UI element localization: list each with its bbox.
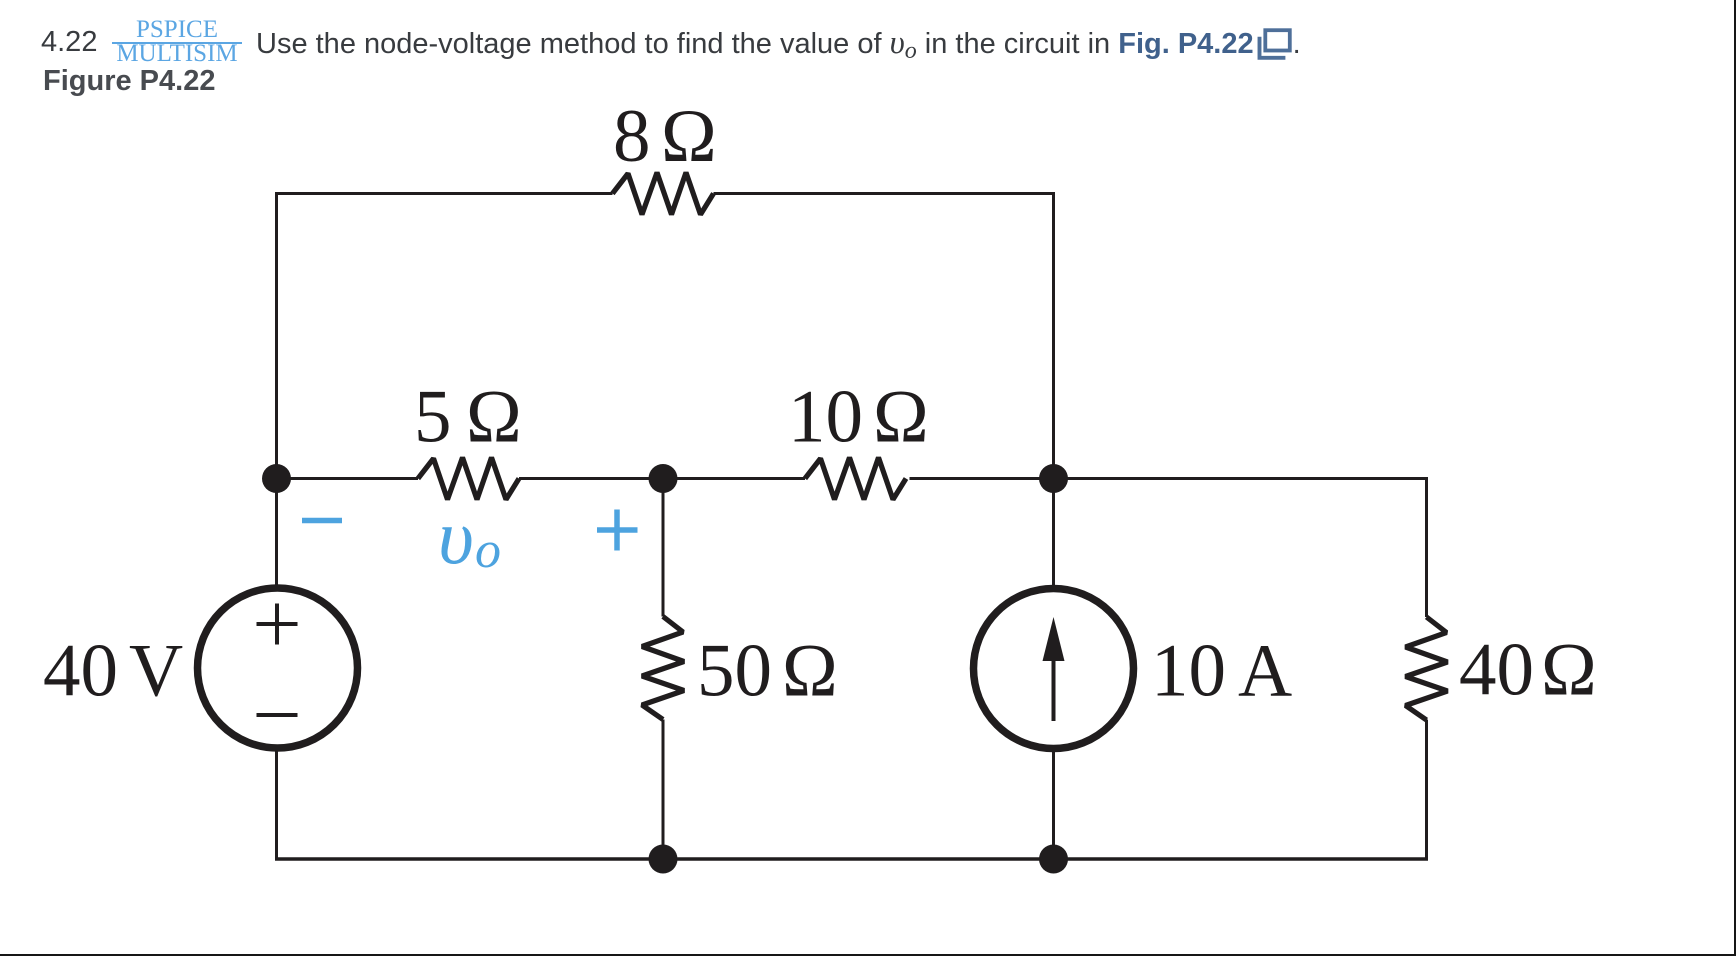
current source arrow shaft xyxy=(1052,655,1056,721)
svg-text:Ω: Ω xyxy=(1541,629,1597,712)
resistor 50 Ohm (vertical) xyxy=(642,617,684,720)
current source arrow head xyxy=(1043,617,1065,661)
svg-text:10: 10 xyxy=(1151,630,1226,713)
svg-text:5: 5 xyxy=(414,376,452,459)
node C dot (right middle) xyxy=(1039,464,1068,493)
wire top horizontal right of 8 ohm xyxy=(714,192,1056,195)
resistor 40 Ohm (vertical) xyxy=(1406,617,1448,720)
right window edge xyxy=(1734,0,1736,956)
node A dot (left middle) xyxy=(262,464,291,493)
problem number 4.22 xyxy=(41,28,97,57)
resistor 10 Ohm xyxy=(805,458,906,500)
svg-text:o: o xyxy=(475,522,501,579)
resistor 5 Ohm xyxy=(418,458,519,500)
problem statement line xyxy=(256,26,1301,66)
wire bottom rail xyxy=(275,857,1428,861)
voltage source 40 V circle xyxy=(198,588,358,748)
wire middle horizontal left of 5 ohm xyxy=(277,477,419,480)
node E dot (bottom right) xyxy=(1039,845,1068,874)
voltage source plus sign xyxy=(257,604,298,645)
svg-text:Ω: Ω xyxy=(873,376,929,459)
node B dot (center middle) xyxy=(649,464,678,493)
wire middle horizontal between 5 ohm and 10 ohm xyxy=(519,477,805,480)
resistor 8 Ohm (top) xyxy=(613,173,714,215)
svg-text:10: 10 xyxy=(788,376,863,459)
wire from current source down to bottom rail xyxy=(1052,748,1055,861)
wire top horizontal left of 8 ohm xyxy=(275,192,613,195)
svg-text:Ω: Ω xyxy=(466,376,522,459)
polarity plus (blue) xyxy=(597,510,638,551)
wire middle horizontal right of 10 ohm xyxy=(910,477,1427,480)
svg-text:Ω: Ω xyxy=(661,95,717,178)
PSPICE / MULTISIM fraction badge xyxy=(112,17,242,63)
svg-text:40: 40 xyxy=(1459,629,1534,712)
svg-text:υ: υ xyxy=(438,493,474,580)
node D dot (bottom center) xyxy=(649,845,678,874)
wire from middle node down to current source xyxy=(1052,479,1055,590)
Figure caption xyxy=(43,67,215,96)
wire right rail lower from 40 ohm xyxy=(1425,720,1428,861)
wire right rail upper to 40 ohm xyxy=(1425,477,1428,617)
current source 10 A circle xyxy=(974,589,1134,749)
bottom window edge xyxy=(0,954,1736,956)
svg-text:40: 40 xyxy=(43,630,118,713)
svg-text:8: 8 xyxy=(613,95,651,178)
svg-text:50: 50 xyxy=(697,630,772,713)
wire from middle node down to 50 ohm xyxy=(662,479,665,617)
wire top-left rail xyxy=(275,192,278,588)
wire right vertical from top wire down to middle node xyxy=(1052,194,1055,479)
svg-text:V: V xyxy=(129,630,183,713)
polarity minus (blue) xyxy=(302,518,342,524)
wire from 50 ohm down to bottom rail xyxy=(662,720,665,861)
svg-text:Ω: Ω xyxy=(782,630,838,713)
label vo (blue) xyxy=(438,493,501,580)
voltage source minus sign xyxy=(257,713,298,717)
wire left rail lower xyxy=(275,748,278,861)
svg-text:A: A xyxy=(1238,630,1292,713)
